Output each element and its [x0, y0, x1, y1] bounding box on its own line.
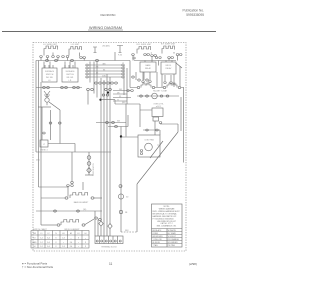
power cord symbol [44, 91, 50, 97]
oven light feed drop [71, 152, 73, 181]
svg-text:1-3: 1-3 [62, 246, 65, 248]
svg-text:(BK): (BK) [173, 84, 177, 86]
svg-text:BAKE ELEMENT: BAKE ELEMENT [74, 201, 89, 204]
wire rows center-right small [113, 91, 131, 102]
svg-text:3-4: 3-4 [47, 238, 50, 240]
svg-text:3-4: 3-4 [47, 246, 50, 248]
svg-text:P-30: P-30 [118, 55, 122, 57]
svg-text:GN GREEN: GN GREEN [168, 242, 178, 244]
svg-text:H2: H2 [70, 233, 72, 235]
extra terminal ovals top right [133, 57, 135, 59]
svg-text:(OR): (OR) [102, 75, 106, 77]
convection motor box [138, 135, 160, 157]
svg-text:L1: L1 [41, 233, 43, 235]
LEGEND BOX [152, 204, 183, 247]
circles on x121 [119, 185, 122, 188]
oven lamp L1 [117, 46, 123, 53]
svg-text:INF. SW.: INF. SW. [46, 77, 53, 79]
bake element B1 [70, 193, 88, 199]
wire from S1 down [40, 82, 42, 225]
legend table lines [152, 229, 183, 248]
small node [43, 132, 45, 134]
diamond interlock [87, 168, 92, 173]
wire y130 [143, 129, 160, 131]
right verticals [130, 61, 184, 163]
wire y152 [36, 151, 111, 153]
oven sensor diamonds [99, 221, 103, 226]
harness right terminals [122, 64, 124, 66]
svg-text:OR ORANGE: OR ORANGE [168, 238, 180, 241]
relay terminal ovals [142, 81, 144, 83]
bake element circuit [41, 197, 65, 199]
oven light switch wires [42, 107, 60, 144]
EOC wires [126, 104, 178, 137]
oven light box [40, 140, 48, 147]
svg-text:(W) (BK): (W) (BK) [102, 46, 110, 48]
bus wire top [36, 60, 176, 62]
svg-text:V VIOLET: V VIOLET [168, 236, 177, 238]
svg-text:CONV. FAN: CONV. FAN [144, 139, 154, 142]
wire y137 to motor [121, 136, 138, 138]
svg-text:1-2: 1-2 [40, 242, 43, 244]
diagonal wire short [150, 141, 163, 158]
node ovals center [102, 94, 105, 96]
surface element SU2 (left rear) [69, 47, 81, 53]
wires from receptacles down [41, 56, 178, 61]
harness left terminals [86, 64, 88, 66]
wire y211 [36, 210, 102, 212]
svg-text:Y YELLOW: Y YELLOW [153, 239, 162, 241]
svg-text:SWITCH: SWITCH [66, 74, 74, 76]
svg-text:1-2: 1-2 [40, 246, 43, 248]
svg-text:PK PINK: PK PINK [168, 245, 176, 247]
connector ovals row y87 [43, 86, 46, 88]
svg-text:HI-LIMIT T-STAT: HI-LIMIT T-STAT [153, 90, 168, 93]
node circles right [132, 76, 135, 78]
svg-text:(BK): (BK) [122, 102, 126, 104]
surface element SU4 (right front) [162, 46, 174, 52]
svg-text:2-4: 2-4 [70, 242, 73, 244]
junction dot C [120, 135, 122, 137]
harness connector lines [88, 65, 122, 77]
inline connector pair A [46, 59, 49, 61]
svg-text:RELAY: RELAY [165, 67, 172, 70]
right side wire x181 [180, 97, 182, 131]
svg-text:† = Non-Functional Parts: † = Non-Functional Parts [22, 265, 54, 269]
broil element circuit [41, 224, 57, 226]
wire chart table [31, 231, 89, 249]
svg-text:Publication No.: Publication No. [183, 8, 205, 12]
wire y126 [108, 126, 128, 128]
wire y107 [38, 106, 51, 108]
diagonal wire to terminal area [137, 132, 178, 184]
svg-text:W WHITE: W WHITE [168, 230, 177, 232]
svg-text:L.R. UNIT: L.R. UNIT [71, 44, 80, 46]
junction dot A [107, 91, 109, 93]
infinite switch S1 box [42, 68, 57, 82]
svg-text:MIN. CLEARANCE 4 IN.: MIN. CLEARANCE 4 IN. [157, 225, 177, 228]
surface element SU1 (left front) [44, 46, 58, 52]
svg-text:L1: L1 [122, 63, 124, 65]
svg-text:TERMINAL BLOCK: TERMINAL BLOCK [101, 246, 117, 249]
svg-text:(BK): (BK) [119, 89, 123, 91]
receptacle contact row left [40, 56, 43, 58]
svg-text:1-2: 1-2 [40, 238, 43, 240]
surface element SU3 (right rear) [137, 47, 151, 53]
BOTTOM LEFT TABLE [31, 231, 89, 249]
svg-text:H1: H1 [62, 233, 64, 235]
svg-text:(GY): (GY) [36, 160, 40, 162]
wire y122 [96, 122, 126, 124]
contact oval L [49, 122, 52, 124]
hi-limit thermostat TH1 [152, 93, 158, 99]
relay box RB1 [140, 62, 156, 72]
wire y175 stub [85, 174, 93, 176]
svg-text:GY GRAY: GY GRAY [168, 232, 177, 235]
ground circle G [45, 98, 49, 102]
svg-text:BROIL ELEMENT: BROIL ELEMENT [64, 229, 80, 231]
svg-text:SWITCH: SWITCH [46, 74, 54, 76]
door lamp chain [88, 152, 90, 175]
contact oval R [59, 122, 62, 124]
svg-text:SW: SW [33, 233, 36, 235]
svg-text:BK BLACK: BK BLACK [153, 229, 163, 232]
wire left drop 2 [38, 61, 40, 188]
svg-text:BL BLUE: BL BLUE [153, 242, 161, 244]
title underline [88, 29, 123, 31]
bottom verticals into terminal block [95, 211, 110, 236]
convection motor M [145, 143, 153, 151]
header rule [2, 30, 216, 32]
terminal block TB1 [95, 236, 123, 244]
svg-text:(30): (30) [83, 209, 87, 211]
broil diagonal [85, 219, 94, 225]
terminal cluster row [95, 82, 98, 84]
connector ovals row y89 center [87, 88, 90, 90]
svg-text:T TAN: T TAN [153, 244, 159, 247]
svg-text:SWITCH CHART: SWITCH CHART [33, 228, 48, 231]
legend box border [152, 204, 183, 247]
svg-text:WIRING DIAGRAM: WIRING DIAGRAM [89, 26, 122, 30]
svg-text:BROIL: BROIL [166, 65, 172, 67]
svg-text:WIRING DIAGRAM: WIRING DIAGRAM [159, 207, 175, 210]
svg-text:SURFACE: SURFACE [45, 70, 55, 73]
vertical drop x137 [136, 184, 138, 232]
infinite switch S2 box [62, 68, 78, 82]
relay coil K2 [167, 83, 177, 88]
hi-limit thermostat row [137, 95, 179, 97]
wire row y87 left [36, 87, 82, 89]
broil element B2 [61, 220, 79, 226]
svg-text:● EOC: ● EOC [156, 106, 162, 108]
junction dot B [99, 99, 101, 101]
dashed wire to legend [121, 231, 137, 233]
EOC node [159, 122, 162, 124]
svg-text:3-4: 3-4 [47, 242, 50, 244]
wire x121 long drop [120, 127, 122, 233]
svg-text:2-4: 2-4 [70, 246, 73, 248]
wire row y87 [130, 87, 184, 89]
frame border (dashed) [33, 43, 186, 252]
wire y143 [48, 144, 75, 153]
svg-text:RELAY: RELAY [145, 67, 152, 70]
svg-text:INF. SW.: INF. SW. [67, 77, 74, 79]
diagonal wire top right [176, 63, 182, 68]
svg-text:R.R. SURF. UNIT: R.R. SURF. UNIT [137, 44, 153, 46]
svg-text:BR BROWN: BR BROWN [153, 236, 164, 238]
svg-text:11: 11 [109, 262, 113, 266]
wire y187 stub [39, 186, 69, 188]
svg-text:2-3: 2-3 [62, 238, 65, 240]
oven control box EOC [152, 108, 163, 117]
svg-text:(2/98): (2/98) [189, 262, 197, 266]
wire y104 [101, 100, 153, 110]
S1 terminal ticks [45, 65, 53, 68]
S2 terminal ticks [65, 65, 73, 68]
diagonal from ground [49, 102, 60, 110]
inline connector pair B [71, 59, 74, 61]
wire left drop 1 [35, 61, 37, 153]
svg-text:L2: L2 [48, 233, 50, 235]
oven control lower box [153, 117, 159, 121]
wires center drop [88, 62, 97, 105]
center bus verticals [90, 52, 127, 236]
svg-text:L.F. SURF. UNIT: L.F. SURF. UNIT [43, 44, 58, 46]
svg-text:R.F. SURF. UNIT: R.F. SURF. UNIT [161, 44, 176, 46]
svg-text:OVEN LT.: OVEN LT. [40, 150, 48, 152]
svg-text:BAKE: BAKE [145, 64, 151, 67]
svg-text:FEC36X6C: FEC36X6C [101, 13, 117, 17]
svg-text:R RED: R RED [153, 233, 159, 235]
relay coil K1 [141, 83, 151, 88]
svg-text:SURFACE: SURFACE [66, 70, 76, 73]
svg-text:5995338095: 5995338095 [186, 13, 204, 17]
receptacle contact cluster right [132, 54, 135, 56]
svg-text:(W): (W) [117, 121, 120, 123]
feed symbol [93, 47, 97, 53]
relay box RB2 [161, 62, 176, 74]
lead wires top row [44, 52, 174, 57]
svg-text:(BK): (BK) [102, 63, 106, 65]
svg-text:(BK): (BK) [125, 230, 129, 232]
svg-text:DOOR SWITCH: DOOR SWITCH [93, 162, 95, 176]
svg-text:L.R.: L.R. [68, 80, 72, 82]
motor lead [159, 130, 161, 135]
wires into switches [44, 62, 75, 69]
relay box bottom drops [143, 61, 172, 82]
